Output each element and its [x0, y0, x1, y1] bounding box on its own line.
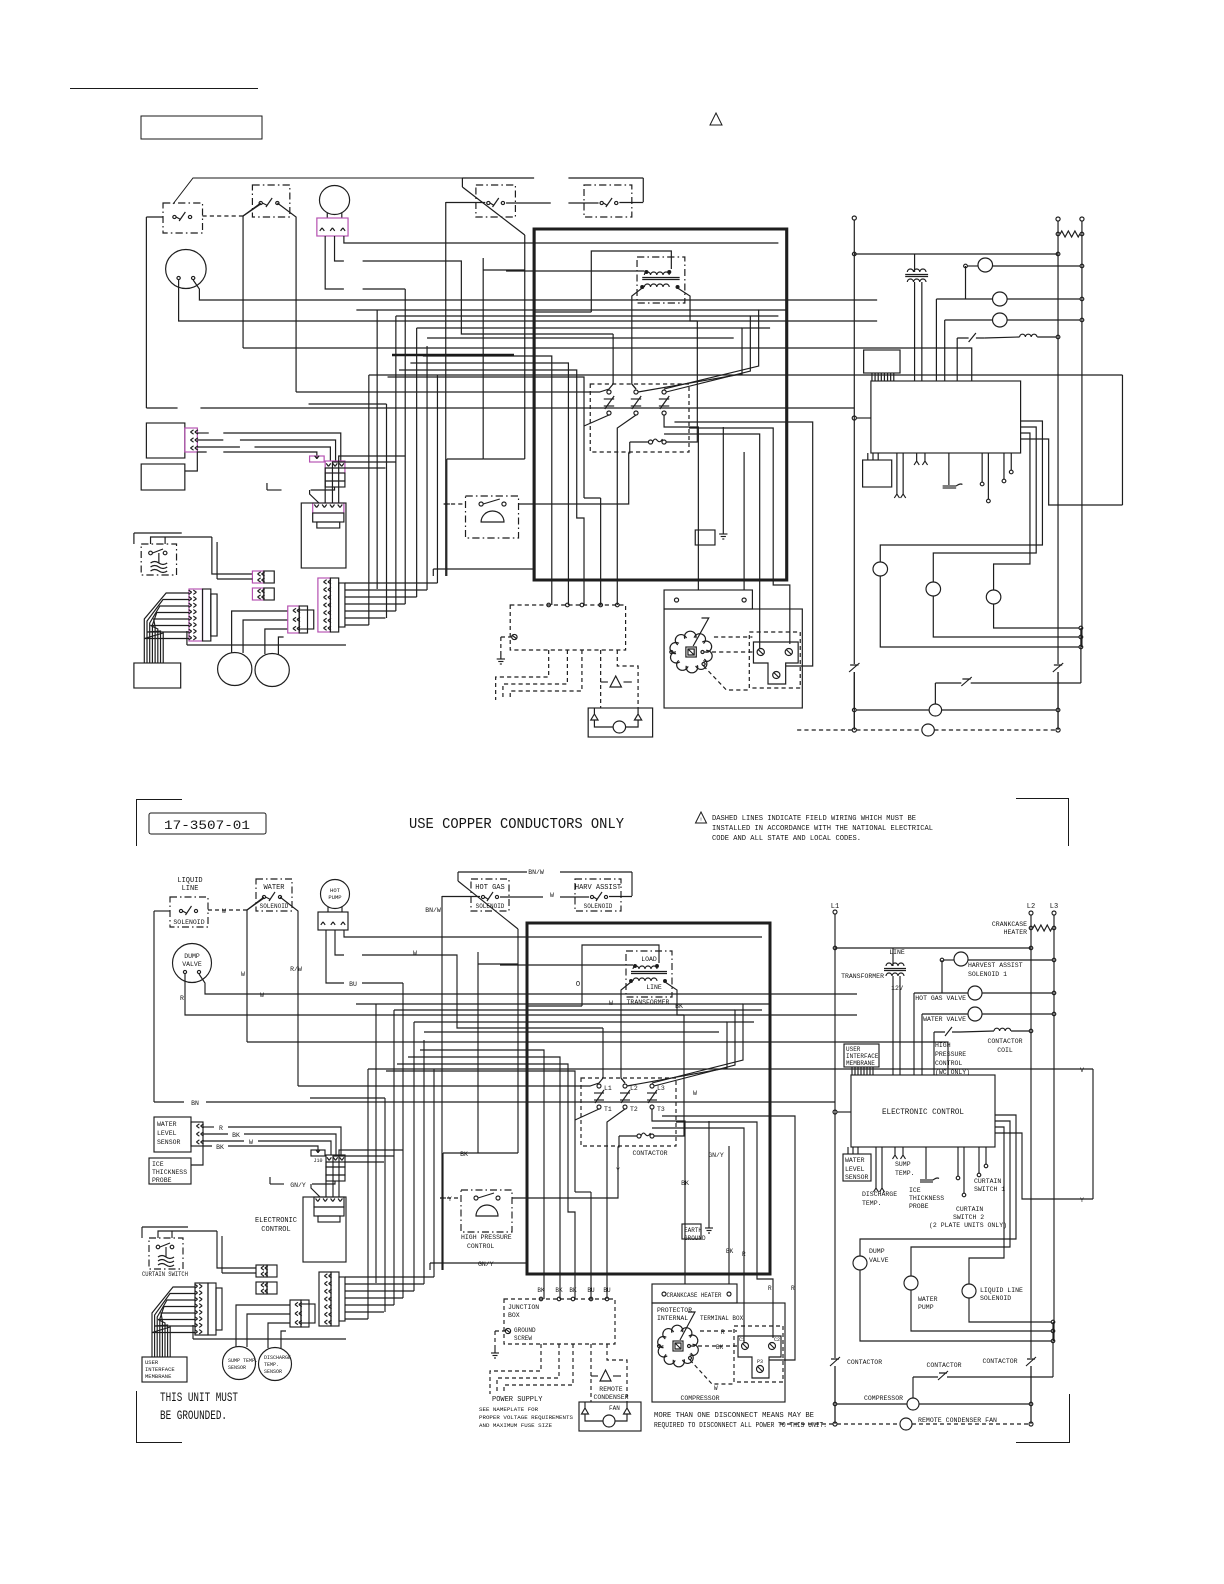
svg-text:POWER SUPPLY: POWER SUPPLY — [492, 1396, 543, 1404]
svg-text:BK: BK — [555, 1287, 563, 1294]
svg-text:LIQUID: LIQUID — [177, 877, 202, 885]
svg-text:J10: J10 — [313, 1158, 322, 1164]
svg-text:!: ! — [699, 817, 702, 823]
svg-text:W: W — [249, 1139, 253, 1146]
bottom sheet corner bracket bottom-left — [137, 1391, 183, 1443]
svg-text:SENSOR: SENSOR — [845, 1174, 869, 1181]
svg-text:BK: BK — [216, 1144, 224, 1151]
svg-text:(2 PLATE UNITS ONLY): (2 PLATE UNITS ONLY) — [929, 1222, 1007, 1229]
svg-text:ELECTRONIC: ELECTRONIC — [255, 1217, 297, 1225]
svg-text:L2: L2 — [1027, 903, 1035, 911]
svg-text:SWITCH 2: SWITCH 2 — [953, 1214, 984, 1221]
svg-text:BU: BU — [587, 1287, 595, 1294]
svg-text:BK: BK — [681, 1180, 689, 1187]
svg-text:TEMP.: TEMP. — [264, 1362, 279, 1368]
svg-text:T1: T1 — [604, 1106, 612, 1113]
svg-text:COMPRESSOR: COMPRESSOR — [680, 1395, 719, 1402]
svg-text:SENSOR: SENSOR — [157, 1139, 181, 1146]
svg-text:TERMINAL BOX: TERMINAL BOX — [700, 1315, 744, 1322]
svg-text:MORE THAN ONE DISCONNECT MEANS: MORE THAN ONE DISCONNECT MEANS MAY BE — [654, 1412, 814, 1420]
svg-text:TRANSFORMER: TRANSFORMER — [627, 999, 670, 1006]
svg-text:DUMP: DUMP — [869, 1248, 885, 1255]
svg-text:HEATER: HEATER — [1004, 929, 1028, 936]
svg-text:W: W — [241, 971, 245, 978]
svg-text:SUMP TEMP.: SUMP TEMP. — [228, 1358, 258, 1364]
svg-text:BK: BK — [537, 1287, 545, 1294]
svg-text:INTERFACE: INTERFACE — [846, 1053, 879, 1060]
svg-text:CONTACTOR: CONTACTOR — [982, 1358, 1017, 1365]
svg-text:JUNCTION: JUNCTION — [508, 1304, 539, 1311]
top sheet part-number box (empty) — [141, 116, 262, 139]
svg-text:LOAD: LOAD — [641, 956, 657, 963]
svg-text:L1: L1 — [604, 1085, 612, 1092]
svg-text:DUMP: DUMP — [184, 953, 200, 960]
svg-text:CURTAIN: CURTAIN — [956, 1206, 983, 1213]
svg-text:SCREW: SCREW — [514, 1335, 532, 1342]
svg-text:GROUND: GROUND — [514, 1327, 536, 1334]
svg-text:SOLENOID: SOLENOID — [260, 903, 289, 910]
svg-text:CONTACTOR: CONTACTOR — [987, 1038, 1022, 1045]
svg-text:V: V — [1080, 1067, 1084, 1074]
svg-text:WATER: WATER — [918, 1296, 938, 1303]
svg-text:SENSOR: SENSOR — [228, 1365, 246, 1371]
svg-text:BK: BK — [716, 1344, 724, 1351]
svg-text:LEVEL: LEVEL — [845, 1166, 865, 1173]
svg-text:CONTACTOR: CONTACTOR — [847, 1359, 882, 1366]
svg-text:PRESSURE: PRESSURE — [935, 1051, 966, 1058]
svg-text:HOT GAS: HOT GAS — [475, 884, 504, 892]
svg-text:REQUIRED TO DISCONNECT ALL POW: REQUIRED TO DISCONNECT ALL POWER TO THIS… — [654, 1422, 827, 1430]
svg-text:DASHED LINES INDICATE FIELD WI: DASHED LINES INDICATE FIELD WIRING WHICH… — [712, 815, 916, 823]
svg-text:SEE NAMEPLATE FOR: SEE NAMEPLATE FOR — [479, 1406, 539, 1413]
svg-text:ICE: ICE — [152, 1161, 164, 1168]
svg-text:THICKNESS: THICKNESS — [152, 1169, 187, 1176]
svg-text:BU: BU — [349, 981, 357, 988]
svg-text:HARV ASSIST: HARV ASSIST — [575, 884, 621, 892]
svg-text:W: W — [222, 908, 226, 915]
svg-text:(WC ONLY): (WC ONLY) — [935, 1069, 970, 1076]
svg-text:R: R — [768, 1285, 772, 1292]
bottom sheet corner bracket top-left — [137, 800, 183, 847]
svg-text:CRANKCASE HEATER: CRANKCASE HEATER — [667, 1292, 722, 1299]
svg-text:SOLENOID: SOLENOID — [476, 903, 505, 910]
svg-text:BK: BK — [569, 1287, 577, 1294]
svg-text:CONTACTOR: CONTACTOR — [926, 1362, 961, 1369]
svg-text:CRANKCASE: CRANKCASE — [992, 921, 1027, 928]
svg-text:INSTALLED IN ACCORDANCE WITH T: INSTALLED IN ACCORDANCE WITH THE NATIONA… — [712, 825, 933, 833]
svg-text:THICKNESS: THICKNESS — [909, 1195, 944, 1202]
svg-text:WATER: WATER — [263, 884, 285, 892]
svg-text:SUMP: SUMP — [895, 1161, 911, 1168]
svg-text:BK: BK — [460, 1151, 468, 1158]
svg-text:SWITCH 1: SWITCH 1 — [974, 1186, 1005, 1193]
svg-text:W: W — [609, 1000, 613, 1007]
svg-text:SOLENOID 1: SOLENOID 1 — [968, 971, 1007, 978]
svg-text:TEMP.: TEMP. — [862, 1200, 882, 1207]
svg-text:GN/Y: GN/Y — [290, 1182, 306, 1189]
note warning triangle — [696, 812, 707, 823]
svg-text:TRANSFORMER: TRANSFORMER — [841, 973, 884, 980]
bottom wiring diagram skeleton — [142, 872, 1093, 1431]
svg-text:DISCHARGE: DISCHARGE — [264, 1355, 291, 1361]
svg-text:12V: 12V — [891, 985, 903, 992]
svg-text:AND MAXIMUM FUSE SIZE: AND MAXIMUM FUSE SIZE — [479, 1422, 553, 1429]
svg-text:BE GROUNDED.: BE GROUNDED. — [160, 1408, 227, 1423]
svg-text:CODE AND ALL STATE AND LOCAL C: CODE AND ALL STATE AND LOCAL CODES. — [712, 835, 861, 843]
svg-text:HIGH: HIGH — [935, 1042, 951, 1049]
svg-text:R: R — [180, 995, 184, 1002]
svg-text:LEVEL: LEVEL — [157, 1130, 177, 1137]
svg-text:CONTROL: CONTROL — [935, 1060, 962, 1067]
svg-text:WATER VALVE: WATER VALVE — [923, 1016, 966, 1023]
svg-text:PROBE: PROBE — [152, 1177, 172, 1184]
svg-text:MEMBRANE: MEMBRANE — [145, 1373, 172, 1380]
svg-text:MEMBRANE: MEMBRANE — [846, 1060, 875, 1067]
svg-text:PROTECTOR: PROTECTOR — [657, 1307, 692, 1314]
svg-text:ICE: ICE — [909, 1187, 921, 1194]
top sheet warning triangle — [710, 113, 722, 125]
svg-text:BOX: BOX — [508, 1312, 520, 1319]
svg-text:CONTACTOR: CONTACTOR — [632, 1150, 667, 1157]
svg-text:HOT GAS VALVE: HOT GAS VALVE — [915, 995, 966, 1002]
svg-text:CURTAIN: CURTAIN — [974, 1178, 1001, 1185]
svg-text:R/W: R/W — [290, 966, 302, 973]
svg-text:REMOTE CONDENSER FAN: REMOTE CONDENSER FAN — [918, 1417, 997, 1424]
svg-text:HIGH PRESSURE: HIGH PRESSURE — [461, 1234, 512, 1241]
svg-text:WATER: WATER — [157, 1121, 177, 1128]
svg-text:P3: P3 — [757, 1359, 763, 1365]
svg-text:PROBE: PROBE — [909, 1203, 929, 1210]
svg-text:ELECTRONIC CONTROL: ELECTRONIC CONTROL — [882, 1107, 964, 1117]
bottom sheet corner bracket bottom-right — [1016, 1394, 1070, 1443]
svg-text:WATER: WATER — [845, 1157, 865, 1164]
svg-text:W: W — [714, 1385, 718, 1392]
wire heavy segment (top diagram) — [392, 354, 514, 357]
svg-text:USER: USER — [145, 1359, 159, 1366]
svg-text:CONTROL: CONTROL — [467, 1243, 494, 1250]
svg-text:CONTROL: CONTROL — [261, 1226, 290, 1234]
svg-text:VALVE: VALVE — [182, 961, 202, 968]
svg-text:PROPER VOLTAGE REQUIREMENTS: PROPER VOLTAGE REQUIREMENTS — [479, 1414, 573, 1421]
svg-text:BK: BK — [232, 1132, 240, 1139]
svg-text:W: W — [550, 892, 554, 899]
part number box — [149, 813, 266, 834]
svg-text:Y: Y — [1080, 1197, 1084, 1204]
svg-text:O: O — [576, 981, 580, 989]
svg-text:C1: C1 — [739, 1337, 745, 1343]
svg-text:W: W — [260, 992, 264, 999]
svg-text:USER: USER — [846, 1046, 861, 1053]
svg-text:HOT: HOT — [330, 887, 341, 894]
svg-text:W: W — [693, 1090, 697, 1097]
svg-text:USE COPPER CONDUCTORS ONLY: USE COPPER CONDUCTORS ONLY — [409, 817, 624, 833]
svg-text:R: R — [742, 1251, 746, 1258]
svg-text:W: W — [413, 950, 417, 957]
svg-text:BU: BU — [603, 1287, 611, 1294]
svg-text:GN/Y: GN/Y — [708, 1152, 724, 1159]
svg-text:L2: L2 — [630, 1085, 638, 1092]
wire top arc extension — [173, 178, 466, 204]
svg-text:TEMP.: TEMP. — [895, 1170, 915, 1177]
svg-text:LIQUID LINE: LIQUID LINE — [980, 1287, 1023, 1294]
svg-text:GN/Y: GN/Y — [478, 1261, 494, 1268]
svg-text:L3: L3 — [657, 1085, 665, 1092]
svg-text:SOLENOID: SOLENOID — [584, 903, 613, 910]
svg-text:Y: Y — [616, 1167, 620, 1174]
svg-text:INTERFACE: INTERFACE — [145, 1366, 175, 1373]
svg-text:CURTAIN SWITCH: CURTAIN SWITCH — [142, 1271, 188, 1278]
svg-text:VALVE: VALVE — [869, 1257, 889, 1264]
svg-text:R: R — [721, 1329, 725, 1336]
svg-text:HARVEST ASSIST: HARVEST ASSIST — [968, 962, 1023, 969]
svg-text:PUMP: PUMP — [328, 894, 341, 901]
svg-text:L1: L1 — [831, 903, 839, 911]
svg-text:C2: C2 — [774, 1337, 780, 1343]
svg-text:LINE: LINE — [182, 885, 199, 893]
svg-text:BN/W: BN/W — [425, 907, 441, 914]
svg-text:COIL: COIL — [997, 1047, 1013, 1054]
svg-text:L3: L3 — [1050, 903, 1058, 911]
svg-text:BN/W: BN/W — [528, 869, 544, 876]
svg-text:DISCHARGE: DISCHARGE — [862, 1191, 897, 1198]
svg-text:T3: T3 — [657, 1106, 665, 1113]
svg-text:COMPRESSOR: COMPRESSOR — [864, 1395, 903, 1402]
top sheet header line — [70, 88, 258, 90]
svg-text:SOLENOID: SOLENOID — [173, 919, 204, 926]
svg-text:BK: BK — [675, 1003, 683, 1010]
svg-text:CONDENSER: CONDENSER — [593, 1394, 628, 1401]
svg-text:THIS UNIT MUST: THIS UNIT MUST — [160, 1390, 238, 1405]
svg-text:LINE: LINE — [889, 949, 905, 956]
svg-text:EARTH: EARTH — [684, 1227, 702, 1234]
svg-text:FAN: FAN — [609, 1405, 620, 1412]
svg-text:BK: BK — [726, 1248, 734, 1255]
svg-text:SENSOR: SENSOR — [264, 1369, 282, 1375]
svg-text:INTERNAL: INTERNAL — [657, 1315, 688, 1322]
bottom sheet corner bracket top-right — [1016, 799, 1069, 847]
svg-text:Y: Y — [448, 1196, 452, 1203]
svg-text:BN: BN — [191, 1100, 199, 1107]
svg-text:R: R — [219, 1125, 223, 1132]
svg-text:SOLENOID: SOLENOID — [980, 1295, 1011, 1302]
svg-text:REMOTE: REMOTE — [599, 1386, 623, 1393]
svg-text:T2: T2 — [630, 1106, 638, 1113]
svg-text:GROUND: GROUND — [684, 1235, 706, 1242]
svg-text:PUMP: PUMP — [918, 1304, 934, 1311]
top wiring diagram (no text) — [134, 178, 1123, 737]
svg-text:LINE: LINE — [646, 984, 662, 991]
bottom diagram text labels — [142, 869, 1084, 1429]
svg-text:R: R — [791, 1285, 795, 1292]
svg-text:17-3507-01: 17-3507-01 — [164, 818, 250, 833]
